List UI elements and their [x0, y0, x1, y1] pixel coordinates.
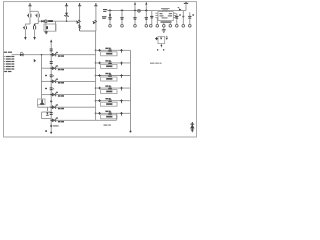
net arrow A1 — [24, 37, 27, 40]
wire C4 down — [24, 29, 26, 37]
label D13 — [58, 82, 61, 84]
connector label text — [4, 52, 7, 53]
wire feeder to row4 — [42, 94, 52, 96]
wire right row3 — [96, 75, 131, 77]
wire Q1 emitter to bus — [80, 30, 96, 32]
mouse cursor — [34, 59, 36, 63]
channel box B1 — [101, 52, 117, 56]
IC U1 pin stubs top — [162, 11, 164, 12]
junction row3 at left bus — [50, 81, 52, 83]
junction J-rail-1 — [109, 9, 112, 12]
capacitor C11 — [120, 17, 123, 19]
bypass loop wire top — [42, 111, 52, 113]
wire VCC1 down — [29, 6, 31, 14]
junction left of U2 — [155, 37, 158, 40]
test pad TP8 — [169, 25, 172, 28]
wire C2 down — [37, 17, 39, 21]
channel box B6 — [101, 115, 117, 119]
power rail wire — [107, 10, 186, 12]
wire feeder to row3 — [42, 80, 52, 82]
bypass loop wire bottom — [42, 118, 52, 120]
wire VCC5 down — [185, 3, 187, 10]
capacitor C33 — [109, 74, 112, 75]
wire right row2 — [96, 62, 131, 64]
channel box B2 — [101, 64, 117, 68]
diode D5 below row5 — [46, 107, 48, 111]
net label text L1 — [103, 9, 107, 10]
test pad TP1 — [109, 25, 112, 28]
diode D1 — [41, 20, 44, 23]
capacitor C36 — [109, 112, 112, 113]
wire jog to C5 — [37, 21, 39, 23]
junction feeder top — [41, 54, 42, 55]
wire lamp down — [45, 23, 47, 32]
power symbol VCC4 — [95, 3, 97, 6]
lamp/pad P1 — [45, 20, 48, 23]
wire right pins down — [176, 13, 178, 24]
net arrow A2 — [33, 37, 36, 40]
wire pin2 to pad — [156, 18, 158, 25]
IC U1 label above — [161, 8, 170, 9]
channel box B5 — [101, 102, 117, 106]
component body on drop x110 — [109, 14, 111, 17]
capacitor C2 — [36, 14, 38, 18]
capacitor C35 — [109, 99, 112, 100]
label D15 — [58, 108, 61, 110]
solder dot 1 — [157, 49, 158, 50]
label D11 — [58, 55, 61, 57]
wire R1 to row5 — [37, 105, 39, 108]
wire drop x122 — [121, 11, 123, 25]
emitter resistor squiggle Q1 — [79, 25, 81, 32]
wire jog to C4 — [25, 23, 30, 25]
wire pin-bottom to pad — [163, 21, 165, 25]
junction J2b — [120, 62, 123, 65]
wire horizontal H1 — [38, 20, 77, 22]
label D12 — [58, 69, 61, 71]
test pad row TP5 — [150, 25, 153, 28]
opto diode D15 — [52, 106, 54, 109]
label inside B4 — [106, 91, 112, 93]
capacitor C32 — [109, 61, 112, 62]
junction center bus row4 — [95, 87, 97, 89]
connector pin list text — [4, 56, 6, 57]
power symbol VCC1 — [29, 3, 31, 6]
junction J3b — [120, 74, 123, 77]
wire VCC3 down — [79, 6, 81, 25]
junction center bus row2 — [95, 62, 97, 64]
label C34 — [105, 85, 108, 86]
transistor mark right of U2 — [166, 38, 168, 40]
channel box B4 — [101, 90, 117, 94]
capacitor C34 — [109, 86, 112, 87]
junction J3a — [98, 74, 101, 77]
junction center bus row6 — [95, 112, 97, 114]
junction on bus y126 — [50, 125, 52, 127]
capacitor C1 — [28, 14, 30, 18]
net arrow up A4 — [145, 2, 147, 10]
test pad TP11 — [189, 25, 192, 28]
R1 internal element — [41, 100, 43, 105]
opto diode D16 — [52, 119, 54, 122]
junction J5b — [120, 99, 123, 102]
transistor Q2 — [93, 21, 96, 24]
label inside B5 — [106, 103, 112, 105]
wire row4 to center bus — [56, 94, 96, 96]
solder dot 2 — [163, 49, 164, 50]
wire VCC4 down — [95, 6, 97, 31]
label C31 — [105, 48, 108, 49]
test pad TP3 — [134, 25, 137, 28]
diode D4 — [20, 53, 23, 56]
net label text L2 — [102, 16, 107, 17]
wire vertical feeder x41.5 — [41, 55, 43, 99]
junction center bus row1 — [95, 49, 97, 51]
diode D3 on rail — [179, 9, 182, 11]
bypass loop wire left — [41, 112, 43, 119]
wire branch top-left — [30, 10, 38, 12]
net arrow up A3 — [134, 2, 136, 10]
test pad TP6 — [156, 25, 159, 28]
right bus vertical — [130, 50, 132, 131]
polarized capacitor C16 — [188, 15, 191, 17]
label C32 — [105, 60, 108, 61]
left bus vertical — [50, 42, 52, 133]
capacitor C10 — [108, 17, 111, 19]
wire C5 down — [34, 29, 36, 37]
junction J4b — [120, 87, 123, 90]
label inside B1 — [106, 53, 112, 55]
label C36 — [105, 111, 108, 112]
component inside K1 — [46, 26, 48, 29]
junction J6a — [98, 112, 101, 115]
junction J6b — [120, 112, 123, 115]
capacitor C24 on bus — [50, 112, 53, 114]
junction J1a — [98, 49, 101, 52]
capacitor C13 — [145, 17, 148, 19]
junction row6 at left bus — [50, 120, 52, 122]
junction row4 at left bus — [50, 94, 52, 96]
wire right row6 — [96, 112, 131, 114]
opto diode D13 — [52, 80, 54, 83]
capacitor C4 — [23, 26, 25, 29]
junction center bus row3 — [95, 75, 97, 77]
label inside B3 — [106, 78, 112, 80]
ground GND2 — [163, 27, 165, 30]
junction J5a — [98, 99, 101, 102]
test pad TP10 — [182, 25, 185, 28]
junction center bus row5 — [95, 100, 97, 102]
wire pin4 to pad — [169, 21, 171, 25]
power symbol VCC3 — [79, 3, 81, 6]
capacitor C20 on bus — [50, 48, 53, 50]
IC U1 body — [158, 12, 173, 21]
label inside B6 — [106, 116, 112, 118]
crystal/cap symbol on rail — [138, 9, 141, 12]
junction J-rail-3 — [145, 9, 148, 12]
component body x183 — [182, 16, 184, 17]
wire row2 to center bus — [56, 67, 96, 69]
ground GND1 — [45, 30, 47, 33]
junction J-rail-2 — [121, 9, 124, 12]
polarity mark below U2 — [161, 45, 163, 47]
wire right row5 — [96, 100, 131, 102]
label D16 — [58, 121, 61, 123]
junction row1 at left bus — [50, 54, 52, 56]
wire row5 to center bus — [56, 106, 96, 108]
wire right row1 — [96, 49, 131, 51]
left bus net arrow top — [50, 41, 52, 42]
diode D6 bottom-right — [191, 122, 193, 132]
IC U1 internal text — [160, 13, 163, 14]
junction row2 at left bus — [50, 67, 52, 69]
IC U1 label below — [161, 21, 172, 22]
connector last line — [4, 71, 7, 72]
wire stub to C3 — [55, 21, 57, 31]
power symbol VCC2 — [66, 3, 68, 6]
diode D2 (dark body) — [48, 20, 53, 22]
label row6 extra — [104, 124, 108, 125]
label C33 — [105, 73, 108, 74]
wire right row4 — [96, 87, 131, 89]
wire drop x146 — [145, 11, 147, 25]
opto box U2 — [158, 37, 165, 44]
capacitor C21 on bus — [50, 61, 53, 63]
opto diode D14 — [52, 93, 54, 96]
polarized capacitor C15 — [175, 15, 178, 17]
capacitor C22 on bus — [50, 74, 53, 76]
wire row1 to center bus — [56, 54, 96, 56]
wire row6 jog up — [116, 113, 118, 120]
left bus end dot — [50, 132, 52, 134]
zener diode Z1 — [65, 13, 68, 16]
center bus vertical — [95, 31, 97, 120]
opto diode D11 — [52, 53, 54, 56]
junction node Z1-H1 — [66, 21, 67, 22]
test pad TP4 — [145, 25, 148, 28]
wire drop x183.3 — [182, 11, 184, 25]
junction J1b — [120, 49, 123, 52]
IC U1 pin stubs right — [173, 12, 176, 14]
wire input row1 — [12, 54, 52, 56]
junction on bus y101 — [50, 100, 52, 102]
label inside B2 — [106, 65, 112, 67]
wire drop x151.8 — [151, 11, 153, 25]
stray dot left-bottom — [45, 130, 47, 132]
resistor box R1 — [38, 99, 45, 105]
power symbol VCC5 — [185, 2, 187, 3]
junction J4a — [98, 87, 101, 90]
wire drop x110 — [109, 11, 111, 25]
relay box K1 — [44, 24, 56, 31]
test pad TP7 — [163, 25, 166, 28]
opto diode D12 — [52, 67, 54, 70]
junction J-rail-x135 — [134, 9, 136, 11]
wire drop x135 — [134, 11, 136, 25]
capacitor C12 — [133, 17, 136, 19]
capacitor C23 on bus — [50, 87, 53, 89]
test pad TP9 — [176, 25, 179, 28]
junction J2a — [98, 62, 101, 65]
channel box B3 — [101, 77, 117, 81]
test pad TP2 — [121, 25, 124, 28]
junction row5 at left bus — [50, 106, 52, 108]
schematic sheet border frame — [4, 2, 197, 137]
capacitor C14 — [150, 15, 153, 17]
IC U1 pin stubs left — [155, 12, 158, 14]
label C35 — [105, 98, 108, 99]
wire C1 down — [29, 17, 31, 24]
wire Z1 down — [66, 16, 68, 21]
wire row3 to center bus — [56, 80, 96, 82]
wire row6 long — [56, 119, 117, 121]
wire feeder to row2 — [42, 67, 52, 69]
transistor Q1 — [77, 21, 80, 24]
annotation text right — [150, 63, 155, 64]
label D14 — [58, 95, 61, 97]
capacitor C31 — [109, 49, 112, 50]
wire C16 leads — [189, 12, 191, 16]
right bus end dot — [130, 131, 132, 133]
U2 internal diode — [160, 38, 162, 40]
capacitor C5 — [33, 26, 35, 30]
wire VCC2 down — [66, 6, 68, 13]
